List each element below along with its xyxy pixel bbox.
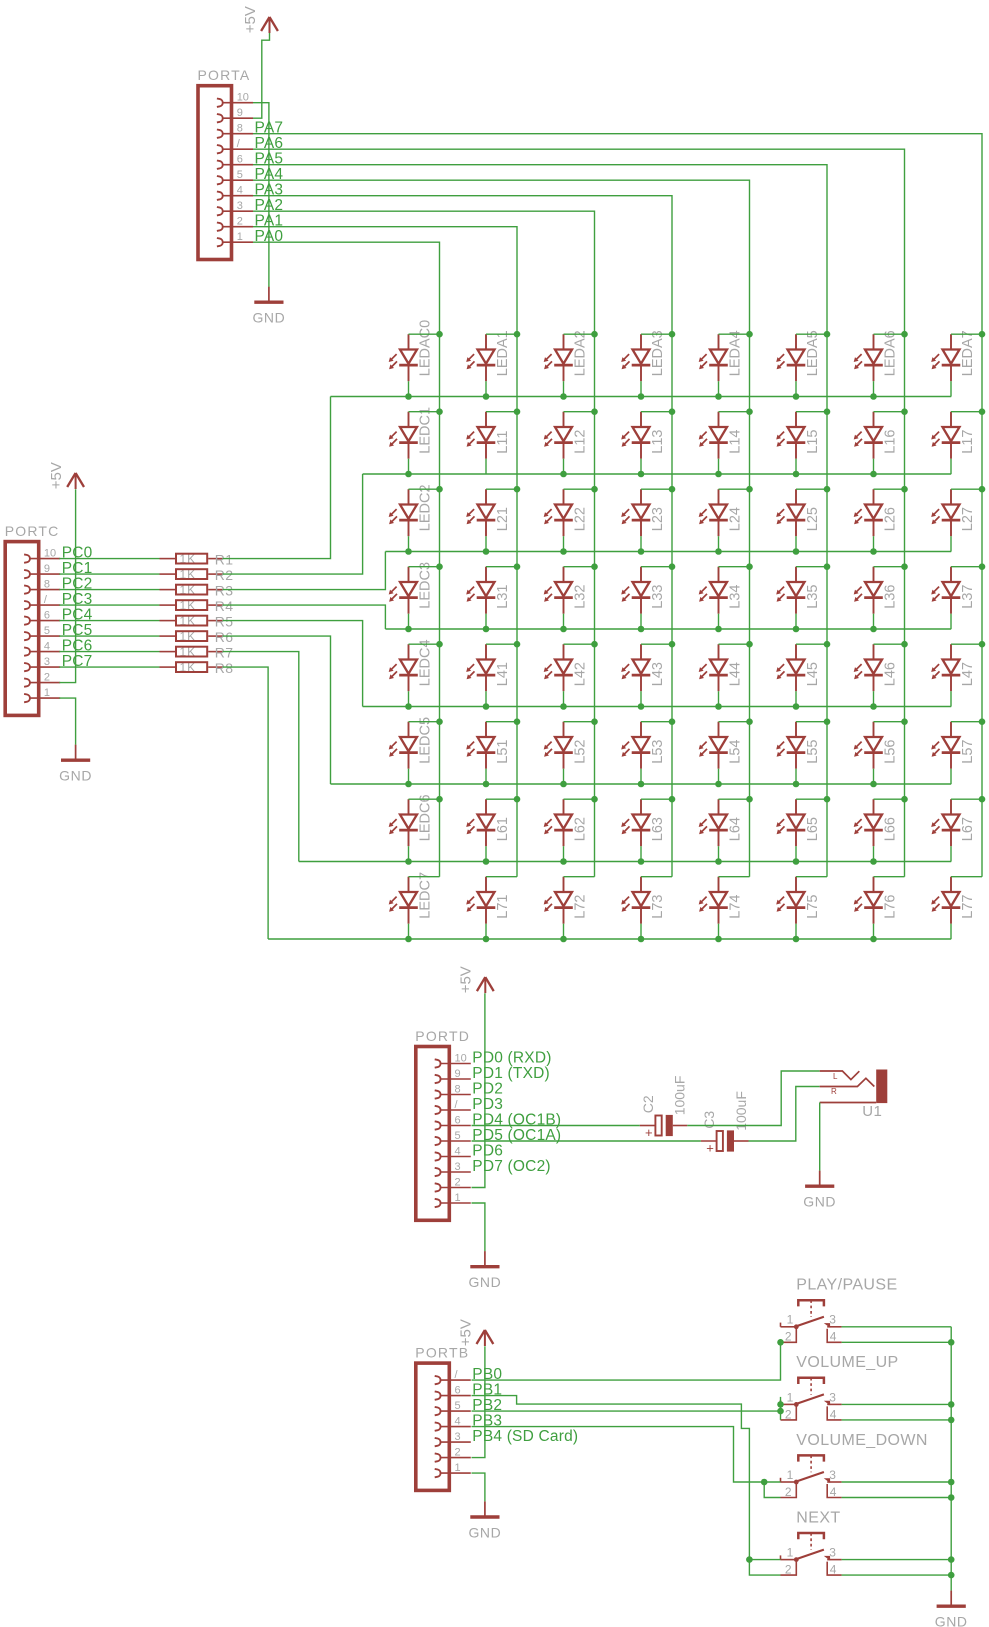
svg-text:LEDA5: LEDA5	[805, 330, 821, 376]
wire row0 col2 anode jog	[564, 333, 595, 335]
net label PD6	[472, 1142, 503, 1159]
svg-text:PD6: PD6	[472, 1142, 503, 1159]
svg-text:L23: L23	[650, 507, 666, 531]
svg-text:L33: L33	[650, 584, 666, 608]
resistor R8 1K	[160, 660, 234, 676]
net label PD1 (TXD)	[472, 1065, 550, 1082]
LED LEDA3	[621, 330, 666, 381]
wire C2 to jack L	[687, 1071, 819, 1126]
svg-text:10: 10	[455, 1052, 467, 1064]
LED L27	[931, 489, 976, 536]
svg-text:PD3: PD3	[472, 1096, 503, 1113]
PORTB pin 5	[435, 1400, 471, 1415]
svg-text:L: L	[833, 1072, 838, 1081]
svg-text:L46: L46	[883, 662, 899, 686]
wire switch 4 pin3 to bus	[842, 1559, 952, 1561]
wire row1 col2 anode jog	[564, 411, 595, 413]
wire row2 col7 anode jog	[951, 488, 982, 490]
wire row 7 cathode drops	[409, 924, 952, 939]
LED LEDC7	[389, 872, 434, 924]
+5V supply symbol	[242, 6, 278, 33]
junction dots row bus 5	[405, 781, 877, 788]
LED L76	[854, 877, 899, 924]
PORTD pin 2	[435, 1176, 471, 1191]
PORTB pin 3	[435, 1431, 471, 1446]
svg-text:LEDC7: LEDC7	[418, 872, 434, 919]
svg-text:3: 3	[237, 200, 243, 212]
wire row1 col4 anode jog	[719, 411, 750, 413]
net label PA1	[255, 213, 284, 230]
svg-text:GND: GND	[59, 768, 92, 784]
PORTC pin 1	[24, 687, 60, 702]
svg-text:6: 6	[455, 1114, 461, 1126]
wire row bus 4	[363, 706, 952, 708]
LED LEDC1	[389, 407, 434, 459]
svg-text:LEDA4: LEDA4	[728, 330, 744, 376]
net label PB0	[472, 1366, 502, 1383]
svg-text:3: 3	[44, 656, 50, 668]
net label PC3	[62, 591, 93, 608]
wire row5 col5 anode jog	[796, 721, 827, 723]
wire row bus 7	[268, 938, 951, 940]
LED L15	[776, 412, 821, 459]
junction dots row bus 2	[405, 548, 877, 555]
svg-text:L14: L14	[728, 429, 744, 453]
junction dots column 2	[591, 331, 598, 803]
svg-text:L65: L65	[805, 817, 821, 841]
PORTC pin 2	[24, 671, 60, 686]
junction dots column 7	[979, 331, 986, 803]
wire row bus 3	[385, 628, 951, 630]
wire PORTC pin4 to R7	[59, 651, 159, 653]
svg-text:+5V: +5V	[457, 1319, 474, 1346]
+5V supply symbol	[48, 462, 84, 489]
wire row0 col7 anode jog	[951, 333, 982, 335]
wire PB2 to VOLUME_UP	[472, 1410, 781, 1412]
wire PORTC pin2 to +5V	[59, 489, 75, 682]
wire PORTC pin6 to R5	[59, 620, 159, 622]
wire row4 col7 anode jog	[951, 643, 982, 645]
wire row5 col3 anode jog	[641, 721, 672, 723]
PORTC pin 6	[24, 609, 60, 624]
wire column 6 row7 anode jog	[874, 876, 905, 878]
svg-text:L66: L66	[883, 817, 899, 841]
svg-text:1: 1	[44, 687, 50, 699]
LED L51	[466, 722, 511, 769]
LED L26	[854, 489, 899, 536]
wire PORTC pin1 to GND	[59, 698, 75, 745]
wire row5 col0 anode jog	[409, 721, 440, 723]
svg-text:L35: L35	[805, 584, 821, 608]
wire row4 col3 anode jog	[641, 643, 672, 645]
resistor R4 1K	[160, 598, 234, 614]
LED L24	[699, 489, 744, 536]
svg-text:L53: L53	[650, 739, 666, 763]
PORTC pin 8	[24, 578, 60, 593]
svg-text:PD7 (OC2): PD7 (OC2)	[472, 1158, 550, 1175]
svg-text:1: 1	[455, 1192, 461, 1204]
wire row1 col7 anode jog	[951, 411, 982, 413]
wire row2 col0 anode jog	[409, 488, 440, 490]
PORTA pin 6	[217, 154, 253, 169]
wire R6 to row bus 5	[223, 636, 331, 784]
wire switch 1 pin4 to bus	[842, 1341, 952, 1343]
PORTA pin 1	[217, 231, 253, 246]
wire PB1 to NEXT	[472, 1396, 781, 1560]
PORTB pin 7	[435, 1369, 471, 1384]
wire row2 col4 anode jog	[719, 488, 750, 490]
LED L12	[544, 412, 589, 459]
wire PORTD pin1 to GND	[472, 1203, 485, 1251]
junction dots right bus	[948, 1339, 955, 1578]
svg-text:VOLUME_DOWN: VOLUME_DOWN	[796, 1432, 928, 1449]
LED LEDC5	[389, 717, 434, 769]
svg-text:+5V: +5V	[48, 462, 65, 489]
wire row4 col2 anode jog	[564, 643, 595, 645]
wire row4 col6 anode jog	[874, 643, 905, 645]
wire row 4 cathode drops	[409, 691, 952, 706]
LED LEDA2	[544, 330, 589, 381]
svg-text:LEDA1: LEDA1	[495, 330, 511, 376]
wire row0 col3 anode jog	[641, 333, 672, 335]
ground	[468, 1251, 501, 1290]
LED L67	[931, 799, 976, 846]
LED L73	[621, 877, 666, 924]
net label PC5	[62, 622, 93, 639]
svg-text:9: 9	[455, 1068, 461, 1080]
svg-text:L55: L55	[805, 739, 821, 763]
svg-text:L71: L71	[495, 894, 511, 918]
wire row4 col5 anode jog	[796, 643, 827, 645]
wire row6 col5 anode jog	[796, 798, 827, 800]
junction dots row bus 0	[405, 393, 877, 400]
LED LEDC2	[389, 484, 434, 536]
svg-text:GND: GND	[252, 310, 285, 326]
svg-text:L77: L77	[960, 894, 976, 918]
svg-text:6: 6	[455, 1384, 461, 1396]
svg-text:+: +	[706, 1141, 714, 1156]
svg-text:3: 3	[829, 1468, 836, 1482]
svg-text:L43: L43	[650, 662, 666, 686]
wire PORTC pin7 to R4	[59, 604, 159, 606]
wire NEXT pin2 tie	[749, 1560, 780, 1576]
PORTA pin 2	[217, 216, 253, 231]
PORTD pin 1	[435, 1192, 471, 1207]
LED L66	[854, 799, 899, 846]
svg-text:L34: L34	[728, 584, 744, 608]
wire row bus 2	[385, 551, 951, 553]
junction dots row bus 1	[405, 471, 877, 478]
wire net PA4 column 4	[253, 180, 750, 877]
wire switch 3 pin4 to bus	[842, 1497, 952, 1499]
wire row 0 cathode drops	[409, 381, 952, 396]
svg-text:LEDC4: LEDC4	[418, 639, 434, 686]
svg-text:L16: L16	[883, 429, 899, 453]
net label PA7	[255, 120, 284, 137]
wire PORTC pin3 to R8	[59, 666, 159, 668]
pushbutton switch VOLUME_DOWN	[781, 1432, 928, 1499]
junction VOLUME_UP pin2 wire	[777, 1408, 784, 1415]
svg-text:L54: L54	[728, 739, 744, 763]
wire row3 col7 anode jog	[951, 566, 982, 568]
svg-text:4: 4	[455, 1415, 461, 1427]
svg-text:5: 5	[455, 1400, 461, 1412]
wire row5 col2 anode jog	[564, 721, 595, 723]
wire row2 col6 anode jog	[874, 488, 905, 490]
wire PORTC pin9 to R2	[59, 573, 159, 575]
net label PA2	[255, 197, 284, 214]
wire row 5 cathode drops	[409, 769, 952, 784]
PORTD pin 9	[435, 1068, 471, 1083]
svg-text:1: 1	[787, 1313, 794, 1327]
LED L56	[854, 722, 899, 769]
PORTA pin 8	[217, 123, 253, 138]
svg-text:L52: L52	[573, 739, 589, 763]
svg-text:PD1 (TXD): PD1 (TXD)	[472, 1065, 550, 1082]
svg-text:GND: GND	[468, 1274, 501, 1290]
svg-text:L74: L74	[728, 894, 744, 918]
svg-text:4: 4	[44, 640, 50, 652]
LED LEDC3	[389, 562, 434, 614]
svg-text:/: /	[44, 594, 48, 606]
wire R7 to row bus 6	[223, 652, 299, 862]
LED L65	[776, 799, 821, 846]
PORTC pin 7	[24, 594, 60, 609]
svg-text:LEDC6: LEDC6	[418, 794, 434, 841]
wire row0 col0 anode jog	[409, 333, 440, 335]
svg-text:L27: L27	[960, 507, 976, 531]
PORTD pin 6	[435, 1114, 471, 1129]
wire PORTC pin10 to R1	[59, 558, 159, 560]
wire row bus 1	[363, 473, 952, 475]
svg-text:LEDC3: LEDC3	[418, 562, 434, 609]
PORTB pin 6	[435, 1384, 471, 1399]
junction PLAY/PAUSE pin2	[777, 1339, 784, 1346]
net label PA4	[255, 166, 284, 183]
svg-text:PB4 (SD Card): PB4 (SD Card)	[472, 1428, 578, 1445]
connector PORTC	[5, 523, 60, 715]
LED LEDA6	[854, 330, 899, 381]
wire row2 col1 anode jog	[486, 488, 517, 490]
LED L47	[931, 644, 976, 691]
svg-text:L76: L76	[883, 894, 899, 918]
svg-text:8: 8	[455, 1083, 461, 1095]
svg-text:L44: L44	[728, 662, 744, 686]
wire row1 col1 anode jog	[486, 411, 517, 413]
wire R1 to row bus 0	[223, 397, 331, 559]
svg-text:10: 10	[237, 92, 249, 104]
svg-text:1: 1	[237, 231, 243, 243]
svg-text:L37: L37	[960, 584, 976, 608]
svg-text:4: 4	[455, 1145, 461, 1157]
svg-text:LEDC1: LEDC1	[418, 407, 434, 454]
LED L64	[699, 799, 744, 846]
wire row bus 5	[331, 783, 952, 785]
svg-text:GND: GND	[935, 1614, 968, 1627]
wire row2 col3 anode jog	[641, 488, 672, 490]
net label PD4 (OC1B)	[472, 1111, 561, 1128]
svg-text:LEDC5: LEDC5	[418, 717, 434, 764]
wire row5 col6 anode jog	[874, 721, 905, 723]
wire row3 col0 anode jog	[409, 566, 440, 568]
wire row1 col5 anode jog	[796, 411, 827, 413]
PORTC pin 4	[24, 640, 60, 655]
LED L11	[466, 412, 511, 459]
LED L74	[699, 877, 744, 924]
resistor R1 1K	[160, 551, 234, 567]
svg-text:5: 5	[455, 1130, 461, 1142]
wire net PA6 column 6	[253, 149, 905, 877]
PORTC pin 9	[24, 563, 60, 578]
resistor R6 1K	[160, 629, 234, 645]
LED L72	[544, 877, 589, 924]
svg-text:L67: L67	[960, 817, 976, 841]
wire row6 col6 anode jog	[874, 798, 905, 800]
svg-text:L64: L64	[728, 817, 744, 841]
net label PC0	[62, 544, 93, 561]
junction VOLUME_UP pin1	[777, 1401, 784, 1408]
LED L54	[699, 722, 744, 769]
junction dots column 5	[824, 331, 831, 803]
wire column 0 row7 anode jog	[409, 876, 440, 878]
svg-text:2: 2	[455, 1446, 461, 1458]
svg-text:LEDA2: LEDA2	[573, 330, 589, 376]
svg-text:8: 8	[237, 123, 243, 135]
net label PB2	[472, 1397, 502, 1414]
LED L14	[699, 412, 744, 459]
wire row6 col2 anode jog	[564, 798, 595, 800]
svg-text:L73: L73	[650, 894, 666, 918]
PORTA pin 4	[217, 185, 253, 200]
LED LEDA1	[466, 330, 511, 381]
PORTB pin 2	[435, 1446, 471, 1461]
svg-text:8: 8	[44, 578, 50, 590]
svg-text:3: 3	[455, 1161, 461, 1173]
wire R2 to row bus 1	[223, 474, 363, 574]
wire switch 3 pin3 to bus	[842, 1481, 952, 1483]
LED L77	[931, 877, 976, 924]
wire row0 col6 anode jog	[874, 333, 905, 335]
wire row6 col0 anode jog	[409, 798, 440, 800]
LED LEDA7	[931, 330, 976, 381]
net label PD7 (OC2)	[472, 1158, 550, 1175]
junction dots column 0	[436, 331, 443, 803]
wire PORTA pin10 to GND	[253, 103, 269, 287]
LED L46	[854, 644, 899, 691]
wire row0 col4 anode jog	[719, 333, 750, 335]
net label PD0 (RXD)	[472, 1049, 551, 1066]
junction dots row bus 7	[405, 936, 877, 943]
net label PC1	[62, 560, 93, 577]
svg-text:U1: U1	[862, 1103, 882, 1120]
wire row1 col0 anode jog	[409, 411, 440, 413]
svg-text:5: 5	[237, 169, 243, 181]
wire row1 col6 anode jog	[874, 411, 905, 413]
junction VOLUME_DOWN pin1	[761, 1479, 768, 1486]
LED L23	[621, 489, 666, 536]
wire column 5 row7 anode jog	[796, 876, 827, 878]
audio jack U1	[820, 1070, 888, 1120]
svg-text:L45: L45	[805, 662, 821, 686]
svg-text:2: 2	[455, 1176, 461, 1188]
PORTD pin 4	[435, 1145, 471, 1160]
svg-text:1: 1	[787, 1546, 794, 1560]
svg-text:1: 1	[455, 1462, 461, 1474]
LED L34	[699, 567, 744, 614]
svg-text:100uF: 100uF	[672, 1076, 688, 1116]
PORTC pin 3	[24, 656, 60, 671]
PORTD pin 5	[435, 1130, 471, 1145]
resistor R5 1K	[160, 613, 234, 629]
net label PB3	[472, 1412, 502, 1429]
svg-text:L26: L26	[883, 507, 899, 531]
LED L71	[466, 877, 511, 924]
connector PORTB	[415, 1344, 469, 1490]
PORTD pin 3	[435, 1161, 471, 1176]
ground	[252, 287, 285, 326]
wire switch 2 pin4 to bus	[842, 1419, 952, 1421]
svg-text:LEDA6: LEDA6	[883, 330, 899, 376]
pushbutton switch NEXT	[781, 1509, 842, 1576]
svg-text:LEDC2: LEDC2	[418, 484, 434, 531]
svg-text:9: 9	[237, 107, 243, 119]
LED L32	[544, 567, 589, 614]
wire column 3 row7 anode jog	[641, 876, 672, 878]
wire PD5 to C3	[472, 1140, 701, 1142]
wire row5 col4 anode jog	[719, 721, 750, 723]
junction dots column 4	[746, 331, 753, 803]
svg-text:NEXT: NEXT	[796, 1509, 840, 1526]
wire PORTA pin9 to +5V	[253, 33, 270, 118]
wire switch 2 pin3 to bus	[842, 1403, 952, 1405]
LED L63	[621, 799, 666, 846]
svg-text:L24: L24	[728, 507, 744, 531]
wire R4 to row bus 3	[223, 605, 386, 629]
wire net PA7 column 7	[253, 134, 982, 877]
LED L53	[621, 722, 666, 769]
wire row5 col1 anode jog	[486, 721, 517, 723]
wire row3 col6 anode jog	[874, 566, 905, 568]
wire row 3 cathode drops	[409, 614, 952, 629]
wire net PA5 column 5	[253, 165, 827, 877]
junction dots column 3	[669, 331, 676, 803]
wire row3 col2 anode jog	[564, 566, 595, 568]
wire PORTC pin5 to R6	[59, 635, 159, 637]
svg-text:L32: L32	[573, 584, 589, 608]
net label PC4	[62, 606, 93, 623]
junction dots row bus 6	[405, 858, 877, 865]
svg-text:L72: L72	[573, 894, 589, 918]
wire row6 col4 anode jog	[719, 798, 750, 800]
LED LEDA4	[699, 330, 744, 381]
svg-text:4: 4	[237, 185, 243, 197]
svg-text:L13: L13	[650, 429, 666, 453]
wire R3 to row bus 2	[223, 552, 386, 590]
junction dots row bus 3	[405, 626, 877, 633]
net label PB1	[472, 1381, 502, 1398]
PORTC pin 5	[24, 625, 60, 640]
wire row6 col3 anode jog	[641, 798, 672, 800]
wire row4 col4 anode jog	[719, 643, 750, 645]
LED L17	[931, 412, 976, 459]
wire row bus 0	[331, 396, 952, 398]
PORTA pin 5	[217, 169, 253, 184]
+5V supply symbol	[458, 966, 494, 993]
net label PA5	[255, 151, 284, 168]
svg-text:LEDA7: LEDA7	[960, 330, 976, 376]
svg-text:C2: C2	[640, 1095, 656, 1113]
svg-text:R: R	[831, 1087, 837, 1096]
